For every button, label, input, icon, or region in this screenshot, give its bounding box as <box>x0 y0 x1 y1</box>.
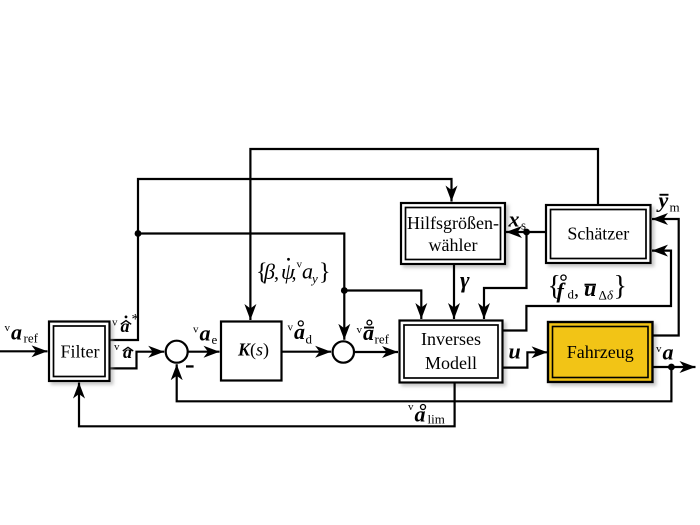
svg-text:ref: ref <box>24 331 39 346</box>
wire x_s branch to Inverses Modell top <box>484 232 527 319</box>
label v dothat a star <box>112 312 139 337</box>
label va_lim <box>408 401 445 427</box>
wire circle1 to K(s) <box>188 351 220 353</box>
label fd uDeltadelta <box>548 271 627 303</box>
wire x_s Schaetzer to Hilfsgroessenwaehler <box>506 231 546 233</box>
label u <box>509 339 521 364</box>
junction dot A <box>135 230 142 237</box>
minus sign <box>186 365 194 367</box>
wire Schaetzer top to K(s) top <box>250 149 598 320</box>
svg-text:Fahrzeug: Fahrzeug <box>567 342 634 362</box>
svg-text:u: u <box>509 339 521 364</box>
label ym <box>656 188 680 215</box>
svg-text:a: a <box>11 320 22 345</box>
svg-text:e: e <box>212 332 218 347</box>
summing circle 2 <box>333 341 354 362</box>
wire Filter lower output to summing circle 1 <box>110 352 165 369</box>
svg-text:}: } <box>614 271 627 302</box>
svg-text:a: a <box>663 340 674 365</box>
wire Filter upper output to Hilfsgroessenwaehler top <box>110 179 452 340</box>
label va_ref <box>5 320 39 346</box>
block Fahrzeug <box>548 322 653 382</box>
svg-text:v: v <box>114 341 120 353</box>
block Filter <box>49 322 110 382</box>
svg-text:y: y <box>310 271 318 286</box>
label v hat a <box>114 341 133 362</box>
svg-text:wähler: wähler <box>429 235 478 255</box>
junction dot D <box>668 364 675 371</box>
svg-text:u: u <box>584 276 596 301</box>
svg-text:x: x <box>508 207 520 232</box>
block Hilfsgroessenwaehler <box>401 203 505 264</box>
wire K(s) to summing circle 2 <box>282 351 332 353</box>
svg-text:ref: ref <box>375 332 390 347</box>
wire va output <box>653 366 696 368</box>
svg-text:v: v <box>408 401 414 413</box>
wire va_lim feedback to Filter <box>79 383 455 427</box>
summing circle 1 <box>166 341 188 363</box>
svg-text:K(s): K(s) <box>237 340 269 361</box>
junction dot B <box>341 287 348 294</box>
label v ringa d <box>288 319 313 347</box>
svg-text:Filter: Filter <box>61 342 100 362</box>
svg-text:Δ: Δ <box>599 288 607 303</box>
svg-text:v: v <box>112 317 118 329</box>
svg-text:,: , <box>274 262 279 284</box>
wire branch to Inverses Modell top left <box>344 291 421 320</box>
svg-text:Schätzer: Schätzer <box>567 224 629 244</box>
wire va feedback to circle1 <box>177 364 672 401</box>
svg-text:s: s <box>521 218 526 233</box>
svg-text:Modell: Modell <box>425 353 477 373</box>
svg-text:v: v <box>357 324 363 336</box>
wire input va_ref to Filter <box>0 350 48 352</box>
wire branch to summing circle 2 <box>138 234 344 340</box>
label va_e <box>193 321 218 348</box>
label v ringbar a ref <box>357 320 390 347</box>
svg-text:a: a <box>363 320 374 345</box>
svg-text:a: a <box>200 321 211 346</box>
block Schaetzer <box>546 205 651 263</box>
svg-text:v: v <box>5 322 11 334</box>
svg-text:Hilfsgrößen-: Hilfsgrößen- <box>407 213 499 233</box>
junction dot C <box>523 229 530 236</box>
svg-text:v: v <box>656 343 662 355</box>
svg-text:lim: lim <box>428 412 445 427</box>
svg-text:a: a <box>123 342 132 362</box>
label beta psidot vay <box>256 258 331 286</box>
label va <box>656 340 674 365</box>
svg-text:v: v <box>288 322 294 334</box>
wire ym Fahrzeug to Schaetzer <box>652 219 679 336</box>
label gamma <box>460 268 470 293</box>
svg-text:d: d <box>306 332 313 347</box>
svg-text:}: } <box>319 260 331 286</box>
svg-text:v: v <box>193 324 199 336</box>
svg-text:γ: γ <box>460 268 470 293</box>
wire u Inverses Modell to Fahrzeug <box>503 352 548 367</box>
label x_s <box>508 207 527 233</box>
wire fd uDelta Inverses Modell to Schaetzer <box>503 251 672 331</box>
svg-text:,: , <box>574 279 579 301</box>
svg-text:a: a <box>121 316 130 336</box>
wire circle2 to Inverses Modell <box>354 351 398 353</box>
block K(s) <box>221 322 282 381</box>
svg-text:m: m <box>670 200 680 215</box>
svg-text:*: * <box>132 312 140 328</box>
wire gamma Hilfsgroessenwaehler to Inverses Modell <box>453 264 455 319</box>
svg-text:Inverses: Inverses <box>421 329 481 349</box>
block Inverses Modell <box>400 321 503 383</box>
